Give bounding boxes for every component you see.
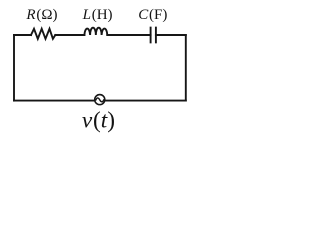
wire bottom-right segment (105, 100, 186, 102)
svg-text:v(t): v(t) (82, 107, 115, 133)
wire left vertical (13, 35, 15, 101)
svg-text:C(F): C(F) (138, 7, 167, 23)
wire inductor to capacitor (107, 34, 150, 36)
wire right vertical (185, 35, 187, 101)
source V circle (95, 95, 105, 105)
wire bottom-left segment (14, 100, 94, 102)
wire resistor to inductor (55, 34, 84, 36)
wire top-left segment (14, 34, 31, 36)
resistor R (31, 29, 55, 39)
capacitor C plate left (150, 28, 152, 43)
svg-text:R(Ω): R(Ω) (25, 7, 57, 23)
wire capacitor to corner (156, 34, 186, 36)
source sine symbol (96, 98, 104, 102)
capacitor C plate right (155, 28, 157, 43)
svg-text:L(H): L(H) (82, 7, 113, 23)
inductor L (84, 28, 107, 35)
